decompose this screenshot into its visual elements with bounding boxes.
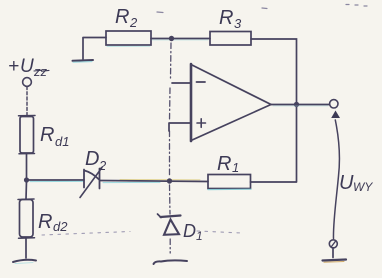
wire (output down lead, wavy): [333, 120, 339, 239]
label Rd2: [38, 211, 68, 234]
wire: [26, 154, 28, 179]
svg-text:3: 3: [234, 16, 242, 31]
svg-text:zz: zz: [33, 64, 48, 79]
svg-text:+: +: [8, 56, 19, 77]
label +Uzz: [8, 56, 49, 79]
label R1: [217, 153, 239, 175]
diode D2: [80, 168, 102, 198]
label UWY: [339, 172, 373, 194]
ground (top-left, for R2): [73, 38, 94, 62]
op-amp U1: [191, 64, 271, 141]
svg-text:1: 1: [232, 160, 239, 175]
resistor R3: [210, 32, 251, 46]
ground: [13, 260, 36, 264]
node (Rd1 / Rd2 / D2 junction): [24, 177, 29, 182]
wire: [25, 238, 27, 258]
svg-text:U: U: [339, 172, 354, 194]
pin + (non-inverting input): [169, 123, 191, 131]
ground (bottom-right): [323, 260, 347, 263]
node (output junction): [294, 102, 299, 107]
svg-text:d1: d1: [55, 134, 69, 149]
label D2: [85, 148, 107, 173]
svg-text:R: R: [38, 211, 52, 233]
svg-text:WY: WY: [353, 180, 373, 194]
label R2: [115, 6, 138, 30]
wire (R3 to output node, right riser): [251, 39, 297, 182]
terminal +Uzz: [23, 78, 32, 87]
svg-text:D: D: [183, 221, 196, 241]
label Rd1: [40, 124, 69, 149]
wire (op-amp output): [271, 105, 330, 107]
ground (below D1): [154, 260, 188, 264]
label +: [197, 119, 206, 128]
svg-text:R: R: [40, 124, 54, 146]
wire (R2 to R3): [151, 39, 210, 41]
resistor Rd2: [18, 199, 35, 238]
svg-text:U: U: [20, 56, 34, 77]
svg-text:R: R: [115, 6, 129, 28]
node A (R2 / R3 / inverting input): [169, 36, 174, 41]
wire (dash-dot net: node A down to + input and D1): [170, 43, 172, 253]
pin - (inverting input): [172, 82, 191, 84]
resistor R1: [208, 175, 251, 190]
wire: [25, 181, 28, 199]
label -: [197, 81, 206, 83]
resistor Rd1: [19, 116, 36, 154]
wire (node to D2 anode): [27, 179, 85, 181]
terminal output (lower): [329, 240, 337, 248]
svg-text:R: R: [217, 153, 231, 175]
svg-text:d2: d2: [53, 219, 68, 234]
terminal output (upper): [330, 100, 340, 118]
label D1: [183, 221, 203, 243]
node (D1 / + input junction): [167, 178, 172, 183]
wire (D2 to R1): [100, 181, 208, 182]
svg-text:D: D: [85, 148, 99, 170]
resistor R2: [106, 31, 151, 47]
wire: [332, 248, 334, 258]
svg-text:2: 2: [129, 15, 138, 30]
wire (R1 to output riser): [251, 181, 297, 183]
wire (faint dash-dot baseline): [42, 231, 242, 235]
svg-text:2: 2: [98, 158, 107, 173]
svg-text:R: R: [219, 7, 233, 29]
wire: [26, 87, 28, 116]
label R3: [219, 7, 242, 31]
diode D1 (Zener): [158, 214, 181, 235]
wire (ground to R2): [83, 37, 106, 39]
